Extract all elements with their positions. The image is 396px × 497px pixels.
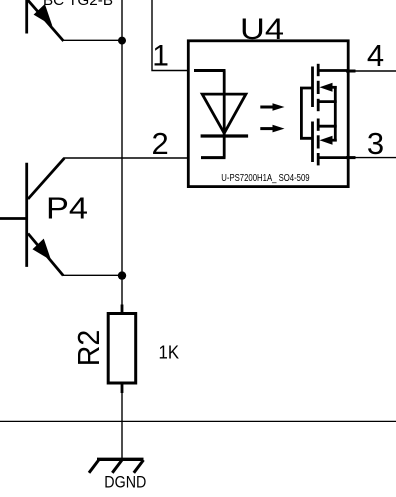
wire P4 collector to pin 2 <box>64 157 188 159</box>
node junction dot (bus / P4 emitter) <box>118 271 126 279</box>
svg-text:P4: P4 <box>46 191 88 226</box>
svg-text:DGND: DGND <box>104 473 146 492</box>
wire P4 emitter to bus <box>63 274 122 276</box>
MOSFET M1 (top) of U4 <box>313 64 348 111</box>
svg-text:3: 3 <box>367 126 384 161</box>
svg-text:U4: U4 <box>240 13 284 46</box>
svg-text:BC TG2-B: BC TG2-B <box>43 0 113 9</box>
svg-text:U-PS7200H1A_ SO4-509: U-PS7200H1A_ SO4-509 <box>221 173 310 184</box>
wire source-source link <box>334 86 337 142</box>
light arrow 1 <box>260 103 284 111</box>
svg-text:4: 4 <box>367 38 384 73</box>
wire vertical bus <box>121 0 123 306</box>
resistor R2 <box>108 305 136 394</box>
wire pin 4 of U4 <box>346 70 396 73</box>
MOSFET M2 (bottom) of U4 <box>313 119 348 166</box>
transistor Q (top, partially cropped) <box>26 0 64 41</box>
node junction dot (bus / Q emitter) <box>118 37 126 45</box>
wire pin 3 of U4 <box>346 156 396 159</box>
LED D of U4 <box>194 71 248 158</box>
svg-text:R2: R2 <box>71 330 106 367</box>
wire gate link <box>301 88 313 138</box>
svg-text:1: 1 <box>152 40 169 73</box>
light arrow 2 <box>260 125 284 133</box>
wire emitter of Q to bus <box>63 39 122 41</box>
wire pin 1 of U4 <box>152 0 188 71</box>
svg-text:1K: 1K <box>159 342 180 362</box>
transistor P4 <box>0 158 64 275</box>
svg-text:2: 2 <box>152 126 169 161</box>
wire horizontal full-width net <box>0 420 396 422</box>
optocoupler U4 box <box>188 41 348 187</box>
ground DGND symbol <box>89 459 144 473</box>
wire R2 to ground <box>121 392 123 459</box>
